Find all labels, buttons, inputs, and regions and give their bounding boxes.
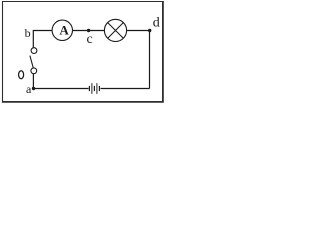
wire a up to switch — [32, 74, 34, 89]
battery B1 — [89, 83, 99, 94]
switch S1 lower contact — [31, 68, 37, 74]
switch pivot label O — [19, 71, 24, 79]
switch S1 upper contact — [31, 48, 37, 54]
svg-text:b: b — [25, 26, 31, 40]
wire ammeter to lamp — [72, 30, 104, 32]
wire b corner to ammeter — [33, 31, 52, 48]
wire bottom left a to battery — [34, 88, 89, 90]
node c junction dot — [87, 29, 90, 32]
switch S1 blade (open) — [30, 56, 33, 68]
wire bottom right battery to d — [101, 88, 150, 90]
node d junction dot — [148, 29, 151, 32]
svg-text:c: c — [87, 32, 93, 47]
wire lamp to node d — [127, 30, 150, 32]
wire right side d down — [149, 31, 151, 89]
ammeter A — [52, 20, 72, 40]
node a junction dot — [32, 87, 35, 90]
svg-text:a: a — [26, 82, 32, 96]
svg-text:A: A — [59, 22, 69, 37]
svg-text:d: d — [153, 16, 160, 31]
lamp L1 — [104, 19, 126, 41]
